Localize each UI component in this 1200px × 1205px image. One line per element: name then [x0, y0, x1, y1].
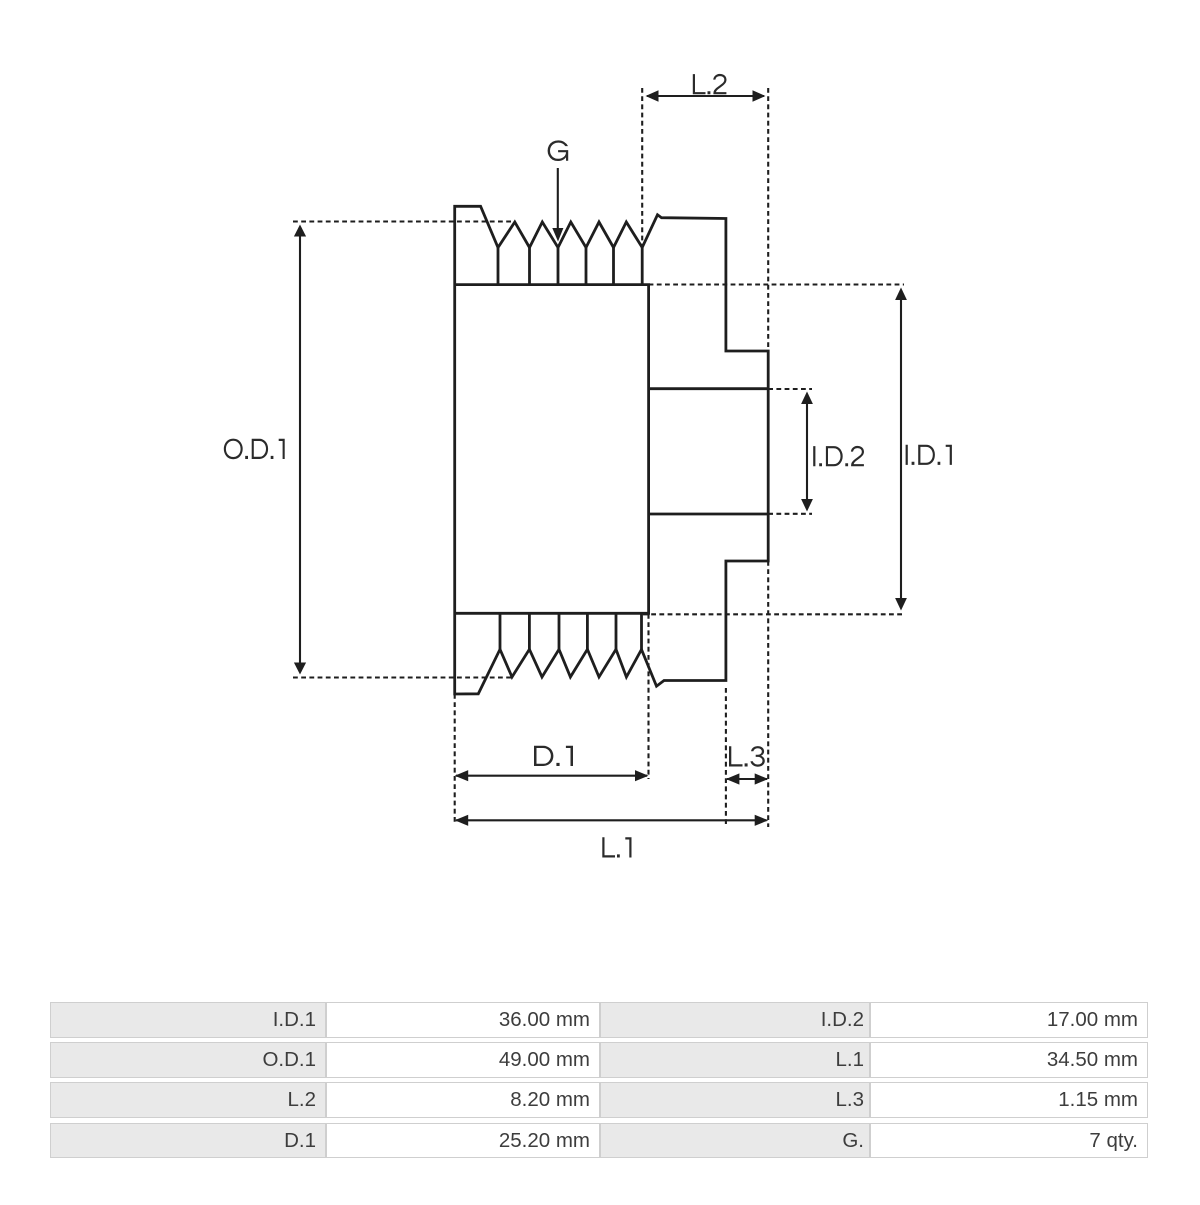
- groove slot verticals top: [498, 248, 642, 285]
- I.D.1 top extension: [649, 283, 904, 285]
- dimension lines: [294, 90, 907, 826]
- L.2 / L.3 / L.1 right extension upper: [767, 88, 769, 351]
- label G: [548, 140, 569, 161]
- I.D.1 bottom extension: [643, 613, 904, 615]
- D.1 right extension: [647, 614, 649, 779]
- I.D.2 dimension line: [806, 394, 808, 509]
- O.D.1 top extension: [293, 220, 515, 222]
- pulley body rectangle: [455, 285, 649, 614]
- L.1 dimension line: [456, 819, 767, 821]
- label D.1: [534, 746, 573, 766]
- L.2 dimension line: [647, 95, 764, 97]
- D.1 / L.1 left extension: [454, 694, 456, 824]
- groove slot verticals bottom: [500, 613, 642, 649]
- label I.D.1: [906, 445, 952, 465]
- dashed extension lines: [293, 88, 904, 827]
- D.1 dimension line: [456, 775, 647, 777]
- O.D.1 dimension line: [299, 227, 301, 672]
- spec table: [50, 1001, 1147, 1003]
- G leader arrow: [557, 168, 559, 230]
- I.D.2 bottom extension: [768, 513, 812, 515]
- label I.D.2: [813, 446, 864, 466]
- L.2 left extension: [641, 88, 643, 248]
- pulley outer profile: [455, 206, 769, 694]
- I.D.2 top extension: [768, 388, 812, 390]
- label L.1: [602, 837, 631, 857]
- L.3 left extension: [725, 688, 727, 827]
- L.3 / L.1 right extension lower: [767, 561, 769, 827]
- label L.2: [693, 74, 727, 94]
- label O.D.1: [224, 439, 285, 460]
- O.D.1 bottom extension: [293, 676, 512, 678]
- L.3 dimension line: [727, 778, 767, 780]
- I.D.1 dimension line: [900, 290, 902, 608]
- label L.3: [729, 746, 765, 767]
- bore I.D.2 lines: [649, 389, 769, 514]
